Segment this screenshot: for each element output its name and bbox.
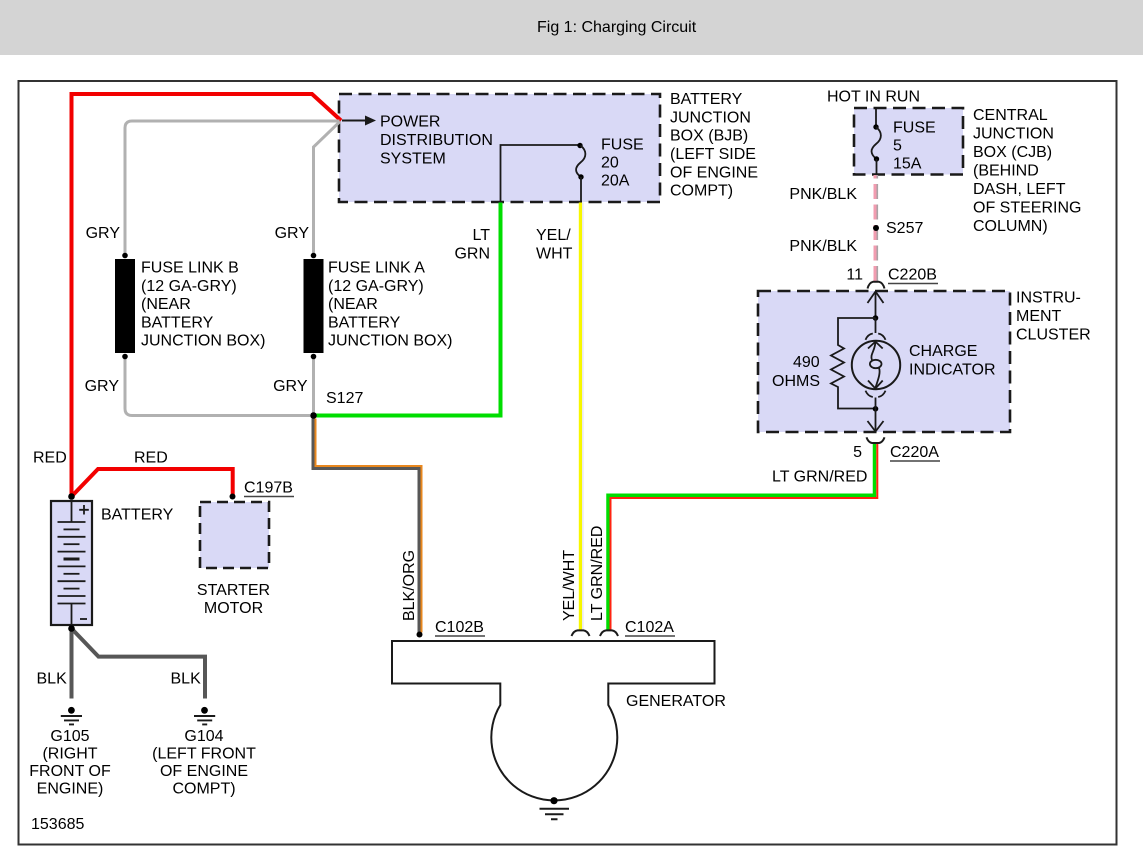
fuse F5 wire to box bottom	[876, 159, 878, 175]
connector C102B dot	[417, 632, 423, 638]
svg-text:STARTER: STARTER	[197, 582, 270, 599]
svg-text:C220B: C220B	[888, 267, 937, 284]
svg-text:(12 GA-GRY): (12 GA-GRY)	[328, 278, 424, 295]
svg-text:JUNCTION: JUNCTION	[670, 109, 751, 126]
wire GRY PDS to fuse link A	[314, 122, 341, 256]
svg-text:5: 5	[853, 444, 862, 461]
box U3 instrument cluster	[758, 291, 1010, 432]
svg-text:BATTERY: BATTERY	[141, 315, 214, 332]
charge indicator upper connector arcs	[875, 318, 877, 333]
fuse link A body	[304, 259, 324, 353]
svg-text:WHT: WHT	[536, 245, 573, 262]
svg-text:GRY: GRY	[85, 378, 120, 395]
svg-text:OF STEERING: OF STEERING	[973, 200, 1081, 217]
fuse link A top terminal dot	[311, 253, 317, 259]
svg-text:YEL/: YEL/	[536, 227, 571, 244]
connector C197B dot	[230, 494, 236, 500]
charge indicator inner arrow down	[868, 381, 883, 389]
svg-text:GRY: GRY	[275, 225, 310, 242]
svg-text:(12 GA-GRY): (12 GA-GRY)	[141, 278, 237, 295]
wire RED battery to PDS	[72, 94, 342, 497]
svg-text:G104: G104	[184, 728, 223, 745]
connector C220A cup	[867, 437, 885, 443]
svg-text:BATTERY: BATTERY	[101, 507, 174, 524]
wire LT GRN S127 to BJB fuse	[316, 203, 501, 416]
wire GRY PDS to fuse link B	[125, 121, 340, 255]
svg-text:15A: 15A	[893, 155, 922, 172]
svg-text:ENGINE): ENGINE)	[37, 781, 104, 798]
fuse F5 element squiggle	[872, 127, 881, 159]
svg-text:S257: S257	[886, 220, 923, 237]
svg-text:20A: 20A	[601, 173, 630, 190]
svg-text:GRY: GRY	[273, 378, 308, 395]
wire BLK/ORG orange stripe	[316, 419, 422, 633]
ground G104 symbol	[201, 707, 208, 714]
generator ground dot	[550, 797, 557, 804]
svg-text:(LEFT FRONT: (LEFT FRONT	[152, 746, 256, 763]
svg-text:CHARGE: CHARGE	[909, 343, 977, 360]
charge indicator filament	[871, 342, 875, 360]
svg-text:FUSE: FUSE	[601, 137, 644, 154]
fuse link B body	[115, 259, 135, 353]
battery internal plates	[58, 501, 86, 625]
fuse F20 element squiggle	[576, 146, 585, 178]
svg-text:LT GRN/RED: LT GRN/RED	[589, 526, 606, 621]
svg-text:COMPT): COMPT)	[670, 183, 733, 200]
battery minus sign	[80, 618, 87, 620]
fuse F5 top dot	[873, 124, 878, 129]
svg-text:RED: RED	[33, 450, 67, 467]
svg-text:BATTERY: BATTERY	[328, 315, 401, 332]
svg-text:OF ENGINE: OF ENGINE	[160, 763, 248, 780]
svg-text:LT GRN/RED: LT GRN/RED	[772, 469, 867, 486]
svg-text:C102B: C102B	[435, 619, 484, 636]
charge indicator filament loop	[870, 360, 882, 368]
svg-text:BLK: BLK	[37, 671, 68, 688]
fuse F20 top dot	[577, 143, 582, 148]
svg-text:(NEAR: (NEAR	[141, 296, 191, 313]
svg-text:DISTRIBUTION: DISTRIBUTION	[380, 132, 493, 149]
wire PNK/BLK CJB to C220B	[874, 175, 877, 281]
svg-text:FUSE: FUSE	[893, 119, 936, 136]
svg-text:INDICATOR: INDICATOR	[909, 362, 996, 379]
svg-text:RED: RED	[134, 450, 168, 467]
wire PNK/BLK black stripe	[876, 175, 878, 281]
svg-text:MENT: MENT	[1016, 308, 1062, 325]
splice S257 dot	[873, 225, 879, 231]
wire LT GRN/RED red stripe	[611, 444, 878, 631]
BJB internal wire to fuse 20	[501, 145, 579, 203]
connector C220B hat	[868, 282, 885, 289]
svg-text:C197B: C197B	[244, 480, 293, 497]
svg-text:PNK/BLK: PNK/BLK	[789, 238, 857, 255]
svg-text:CLUSTER: CLUSTER	[1016, 327, 1091, 344]
svg-text:(RIGHT: (RIGHT	[42, 746, 97, 763]
svg-text:C102A: C102A	[625, 619, 674, 636]
svg-text:(NEAR: (NEAR	[328, 296, 378, 313]
ground G105 symbol	[68, 707, 75, 714]
wire BLK/ORG black part S127 to C102B	[314, 419, 420, 633]
resistor R1 490 ohms branch	[831, 318, 876, 409]
svg-text:153685: 153685	[31, 816, 84, 833]
wire RED battery to starter C197B	[72, 469, 233, 497]
fuse link B bottom terminal dot	[122, 354, 128, 360]
svg-text:FRONT OF: FRONT OF	[29, 763, 111, 780]
battery plus sign	[79, 505, 89, 515]
svg-text:FUSE LINK A: FUSE LINK A	[328, 260, 425, 277]
generator body	[392, 641, 715, 800]
instrument cluster pin 11 arrow up	[875, 292, 877, 318]
svg-text:GRN: GRN	[454, 245, 490, 262]
svg-text:(LEFT SIDE: (LEFT SIDE	[670, 146, 756, 163]
fuse F20 bottom dot	[578, 174, 583, 179]
svg-text:20: 20	[601, 155, 619, 172]
wire BLK battery to G104	[72, 629, 206, 699]
generator ground symbol	[540, 809, 570, 820]
svg-text:5: 5	[893, 137, 902, 154]
svg-text:BATTERY: BATTERY	[670, 91, 743, 108]
svg-text:BOX (BJB): BOX (BJB)	[670, 128, 748, 145]
svg-text:S127: S127	[326, 390, 363, 407]
connector C102A hat	[600, 630, 618, 636]
svg-text:DASH, LEFT: DASH, LEFT	[973, 181, 1066, 198]
svg-text:INSTRU-: INSTRU-	[1016, 290, 1081, 307]
arrow into power distribution system	[342, 120, 367, 122]
instrument cluster top junction dot	[873, 315, 879, 321]
battery top terminal dot	[68, 493, 75, 500]
box U2 central junction box (CJB)	[854, 108, 963, 175]
svg-text:MOTOR: MOTOR	[204, 600, 263, 617]
wire YEL/WHT fuse to generator	[579, 203, 582, 631]
svg-text:JUNCTION BOX): JUNCTION BOX)	[141, 333, 265, 350]
svg-text:BLK: BLK	[171, 671, 202, 688]
svg-text:COMPT): COMPT)	[172, 781, 235, 798]
connector hat at yellow wire	[572, 630, 590, 636]
wire YEL/WHT white stripe	[582, 203, 584, 631]
svg-text:JUNCTION BOX): JUNCTION BOX)	[328, 333, 452, 350]
svg-text:Fig 1: Charging Circuit: Fig 1: Charging Circuit	[537, 19, 697, 36]
wire GRY fuse link A to S127	[312, 357, 315, 413]
svg-text:G105: G105	[50, 728, 89, 745]
svg-text:OHMS: OHMS	[772, 373, 820, 390]
svg-text:CENTRAL: CENTRAL	[973, 107, 1048, 124]
svg-text:PNK/BLK: PNK/BLK	[789, 186, 857, 203]
instrument cluster pin 5 arrow down	[875, 398, 877, 409]
svg-text:SYSTEM: SYSTEM	[380, 151, 446, 168]
svg-text:(BEHIND: (BEHIND	[973, 163, 1039, 180]
charge indicator lower connector arcs	[866, 391, 886, 397]
header bar	[0, 0, 1143, 55]
svg-text:YEL/WHT: YEL/WHT	[561, 550, 578, 621]
svg-text:OF ENGINE: OF ENGINE	[670, 164, 758, 181]
svg-text:GRY: GRY	[86, 225, 121, 242]
svg-text:BLK/ORG: BLK/ORG	[401, 550, 418, 621]
svg-text:LT: LT	[473, 227, 491, 244]
fuse F20 wire to box bottom	[580, 177, 582, 203]
battery bottom terminal dot	[68, 625, 75, 632]
svg-text:GENERATOR: GENERATOR	[626, 693, 726, 710]
svg-text:POWER: POWER	[380, 114, 440, 131]
svg-text:COLUMN): COLUMN)	[973, 218, 1048, 235]
svg-text:FUSE LINK B: FUSE LINK B	[141, 260, 239, 277]
svg-text:HOT IN RUN: HOT IN RUN	[827, 89, 920, 106]
svg-text:BOX (CJB): BOX (CJB)	[973, 144, 1052, 161]
wire LT GRN/RED green part C220A to C102A	[608, 444, 875, 631]
svg-text:JUNCTION: JUNCTION	[973, 126, 1054, 143]
box M1 starter motor	[200, 502, 269, 568]
svg-text:C220A: C220A	[890, 444, 939, 461]
charge indicator lamp circle	[852, 341, 900, 389]
splice S127 dot	[310, 412, 317, 419]
charge indicator inner arrow up	[868, 342, 883, 349]
fuse link B top terminal dot	[122, 253, 128, 259]
battery B1 body	[51, 501, 92, 625]
fuse link A bottom terminal dot	[311, 354, 317, 360]
wire BLK battery to G105	[70, 629, 74, 699]
CJB internal wire fuse 5	[875, 108, 877, 127]
svg-text:490: 490	[793, 354, 820, 371]
box U1 battery junction box (BJB)	[339, 94, 660, 202]
wire GRY fuse link B to S127	[125, 357, 310, 416]
svg-text:11: 11	[846, 267, 863, 284]
fuse F5 bottom dot	[874, 156, 879, 161]
instrument cluster bottom junction dot	[873, 406, 879, 412]
